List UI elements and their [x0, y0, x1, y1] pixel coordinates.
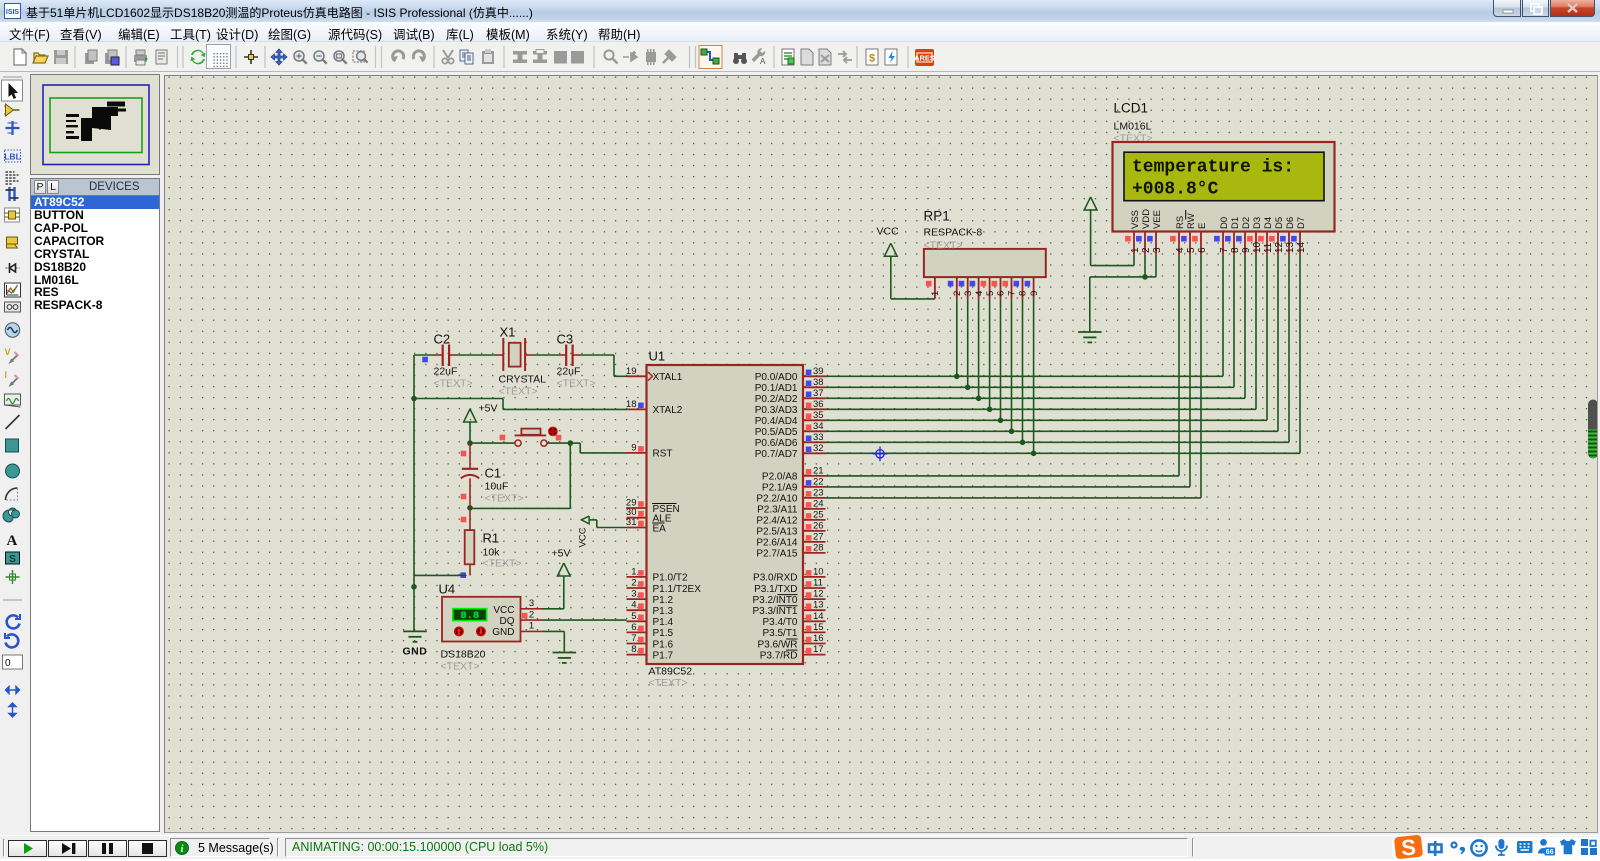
svg-text:6: 6 — [1197, 247, 1208, 253]
svg-text:P0.4/AD4: P0.4/AD4 — [755, 416, 798, 427]
svg-text:22: 22 — [813, 476, 824, 487]
svg-text:+008.8°C: +008.8°C — [1132, 180, 1219, 200]
svg-text:P0.7/AD7: P0.7/AD7 — [755, 449, 798, 460]
svg-text:P2.3/A11: P2.3/A11 — [757, 505, 798, 516]
svg-text:5: 5 — [1186, 247, 1197, 253]
svg-text:P3.5/T1: P3.5/T1 — [762, 628, 797, 639]
svg-text:P1.0/T2: P1.0/T2 — [653, 573, 688, 584]
svg-text:P2.1/A9: P2.1/A9 — [762, 483, 798, 494]
svg-text:P3.0/RXD: P3.0/RXD — [753, 573, 797, 584]
svg-text:VCC: VCC — [877, 226, 900, 238]
svg-text:1: 1 — [930, 291, 941, 296]
svg-text:11: 11 — [813, 578, 823, 589]
svg-text:CRYSTAL: CRYSTAL — [499, 374, 547, 386]
svg-text:24: 24 — [813, 498, 824, 509]
svg-text:C2: C2 — [434, 332, 451, 347]
svg-text:I: I — [5, 370, 8, 380]
svg-text:C1: C1 — [485, 466, 502, 481]
svg-text:AT89C52: AT89C52 — [649, 666, 693, 678]
svg-text:<TEXT>: <TEXT> — [441, 661, 480, 673]
svg-text:6: 6 — [631, 622, 636, 633]
svg-text:10: 10 — [1252, 241, 1263, 253]
svg-text:3: 3 — [529, 598, 534, 609]
svg-text:13: 13 — [813, 600, 824, 611]
svg-text:RW: RW — [1186, 213, 1197, 229]
svg-text:34: 34 — [813, 421, 824, 432]
svg-text:RESPACK-8: RESPACK-8 — [924, 227, 983, 239]
svg-text:4: 4 — [1175, 247, 1186, 253]
svg-text:21: 21 — [813, 465, 824, 476]
svg-text:27: 27 — [813, 531, 824, 542]
svg-text:17: 17 — [813, 644, 824, 655]
svg-text:VDD: VDD — [1141, 209, 1152, 229]
svg-text:35: 35 — [813, 410, 824, 421]
svg-text:P3.4/T0: P3.4/T0 — [762, 617, 797, 628]
svg-text:P0.5/AD5: P0.5/AD5 — [755, 427, 798, 438]
svg-text:D6: D6 — [1285, 217, 1296, 229]
svg-text:P2.5/A13: P2.5/A13 — [756, 527, 798, 538]
svg-text:5: 5 — [631, 611, 636, 622]
svg-text:P2.0/A8: P2.0/A8 — [762, 472, 798, 483]
svg-text:7: 7 — [1219, 247, 1230, 253]
svg-text:2: 2 — [1141, 247, 1152, 253]
svg-text:P3.1/TXD: P3.1/TXD — [754, 584, 797, 595]
svg-text:VEE: VEE — [1152, 210, 1163, 229]
svg-text:7: 7 — [1007, 291, 1018, 296]
svg-text:33: 33 — [813, 432, 824, 443]
svg-text:C3: C3 — [557, 332, 574, 347]
svg-text:<TEXT>: <TEXT> — [924, 240, 963, 252]
svg-text:15: 15 — [813, 622, 824, 633]
svg-text:P0.6/AD6: P0.6/AD6 — [755, 438, 798, 449]
svg-text:8: 8 — [1018, 291, 1029, 296]
svg-text:13: 13 — [1285, 241, 1296, 253]
svg-text:U1: U1 — [649, 349, 666, 364]
svg-text:P1.6: P1.6 — [653, 639, 674, 650]
svg-text:RP1: RP1 — [924, 209, 950, 224]
svg-text:+5V: +5V — [552, 548, 571, 560]
svg-text:P3.3/INT1: P3.3/INT1 — [752, 606, 797, 617]
svg-text:3: 3 — [1152, 247, 1163, 253]
svg-text:37: 37 — [813, 388, 824, 399]
svg-text:P2.4/A12: P2.4/A12 — [756, 516, 798, 527]
svg-text:XTAL2: XTAL2 — [653, 405, 683, 416]
svg-text:P3.2/INT0: P3.2/INT0 — [752, 595, 797, 606]
svg-text:2: 2 — [631, 578, 636, 589]
svg-text:D7: D7 — [1296, 217, 1307, 229]
svg-text:D0: D0 — [1219, 217, 1230, 229]
svg-text:E: E — [1197, 223, 1208, 229]
svg-text:19: 19 — [626, 366, 637, 377]
svg-text:R1: R1 — [483, 531, 500, 546]
svg-text:P1.3: P1.3 — [653, 606, 674, 617]
svg-text:A: A — [760, 57, 766, 66]
svg-text:8: 8 — [1230, 247, 1241, 253]
svg-text:1: 1 — [529, 621, 534, 632]
svg-text:VCC: VCC — [578, 527, 589, 547]
svg-text:8: 8 — [631, 644, 636, 655]
svg-text:3: 3 — [963, 291, 974, 296]
svg-text:P0.1/AD1: P0.1/AD1 — [755, 383, 798, 394]
svg-text:U4: U4 — [439, 582, 456, 597]
svg-text:9: 9 — [631, 442, 636, 453]
svg-text:P0.0/AD0: P0.0/AD0 — [755, 372, 798, 383]
svg-text:DS18B20: DS18B20 — [441, 649, 486, 661]
svg-text:P2.6/A14: P2.6/A14 — [756, 538, 798, 549]
svg-text:25: 25 — [813, 509, 824, 520]
svg-text:31: 31 — [626, 517, 637, 528]
svg-text:D1: D1 — [1230, 217, 1241, 229]
svg-text:7: 7 — [631, 633, 636, 644]
svg-text:D5: D5 — [1274, 217, 1285, 229]
svg-text:22uF: 22uF — [557, 366, 581, 378]
svg-text:ARES: ARES — [914, 54, 935, 63]
svg-text:9: 9 — [1241, 247, 1252, 253]
svg-text:GND: GND — [403, 646, 428, 658]
svg-text:1: 1 — [631, 566, 636, 577]
svg-text:14: 14 — [1296, 241, 1307, 253]
svg-text:ISIS: ISIS — [6, 9, 20, 16]
svg-text:P1.1/T2EX: P1.1/T2EX — [653, 584, 702, 595]
svg-text:P1.4: P1.4 — [653, 617, 674, 628]
svg-text:RS: RS — [1175, 216, 1186, 229]
svg-text:32: 32 — [813, 443, 824, 454]
svg-text:10uF: 10uF — [485, 481, 509, 493]
svg-text:10: 10 — [813, 566, 824, 577]
svg-text:P3.7/RD: P3.7/RD — [760, 650, 798, 661]
svg-text:39: 39 — [813, 366, 824, 377]
svg-text:8.8: 8.8 — [460, 610, 479, 622]
svg-text:<TEXT>: <TEXT> — [557, 378, 596, 390]
svg-text:28: 28 — [813, 542, 824, 553]
svg-text:i: i — [181, 844, 184, 855]
svg-text:<TEXT>: <TEXT> — [485, 493, 524, 505]
svg-text:EA: EA — [653, 523, 667, 534]
svg-text:A: A — [7, 533, 18, 549]
svg-text:+5V: +5V — [479, 403, 498, 415]
svg-text:P3.6/WR: P3.6/WR — [757, 639, 797, 650]
svg-text:VCC: VCC — [493, 605, 514, 616]
svg-text:GND: GND — [492, 627, 514, 638]
svg-text:4: 4 — [974, 291, 985, 296]
svg-text:18: 18 — [626, 399, 637, 410]
svg-text:V: V — [5, 347, 11, 357]
svg-text:38: 38 — [813, 377, 824, 388]
svg-text:LCD1: LCD1 — [1114, 101, 1149, 116]
svg-text:XTAL1: XTAL1 — [653, 372, 683, 383]
svg-text:DQ: DQ — [500, 616, 515, 627]
svg-text:P1.7: P1.7 — [653, 650, 674, 661]
svg-text:14: 14 — [813, 611, 824, 622]
svg-text:22uF: 22uF — [434, 366, 458, 378]
svg-text:LM016L: LM016L — [1114, 121, 1152, 133]
svg-text:$: $ — [869, 53, 875, 65]
svg-text:<TEXT>: <TEXT> — [483, 558, 522, 570]
svg-text:4: 4 — [631, 600, 636, 611]
svg-text:11: 11 — [1263, 242, 1274, 253]
svg-text:S: S — [9, 554, 16, 565]
svg-text:<TEXT>: <TEXT> — [649, 677, 688, 689]
svg-text:9: 9 — [1029, 291, 1040, 296]
svg-text:S: S — [1401, 835, 1417, 859]
svg-text:RST: RST — [653, 449, 673, 460]
svg-text:VSS: VSS — [1130, 210, 1141, 229]
svg-text:23: 23 — [813, 487, 824, 498]
svg-text:<TEXT>: <TEXT> — [434, 378, 473, 390]
svg-text:6: 6 — [996, 291, 1007, 296]
svg-text:12: 12 — [813, 589, 824, 600]
svg-text:P1.2: P1.2 — [653, 595, 674, 606]
svg-text:2: 2 — [529, 609, 534, 620]
svg-text:LBL: LBL — [4, 152, 21, 162]
svg-text:3: 3 — [631, 589, 636, 600]
svg-text:P2.2/A10: P2.2/A10 — [756, 494, 798, 505]
svg-text:<TEXT>: <TEXT> — [499, 386, 538, 398]
svg-text:36: 36 — [813, 399, 824, 410]
svg-text:26: 26 — [813, 520, 824, 531]
svg-text:5: 5 — [985, 291, 996, 296]
svg-text:P2.7/A15: P2.7/A15 — [756, 549, 798, 560]
svg-text:P0.2/AD2: P0.2/AD2 — [755, 394, 798, 405]
svg-text:P0.3/AD3: P0.3/AD3 — [755, 405, 798, 416]
svg-text:1: 1 — [1130, 247, 1141, 253]
svg-text:P1.5: P1.5 — [653, 628, 674, 639]
svg-text:X1: X1 — [500, 325, 516, 340]
svg-text:D4: D4 — [1263, 217, 1274, 229]
svg-text:D3: D3 — [1252, 217, 1263, 229]
svg-text:12: 12 — [1274, 241, 1285, 253]
svg-text:0: 0 — [5, 658, 11, 669]
svg-text:2: 2 — [952, 291, 963, 296]
svg-text:66: 66 — [1546, 849, 1554, 856]
svg-text:D2: D2 — [1241, 217, 1252, 229]
svg-text:temperature is:: temperature is: — [1132, 158, 1294, 178]
svg-text:16: 16 — [813, 633, 824, 644]
